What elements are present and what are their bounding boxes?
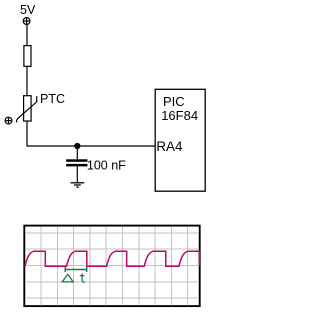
capacitor C1 plate 2: [66, 164, 87, 167]
wire: [76, 166, 78, 182]
wire: [27, 121, 155, 146]
thermistor PTC body: [24, 96, 32, 121]
wire: [26, 25, 28, 46]
svg-text:RA4: RA4: [156, 139, 183, 154]
power terminal 5V: [23, 18, 30, 25]
node junction: [74, 143, 80, 149]
delta-t measurement bracket: [65, 267, 87, 272]
oscilloscope grid: [25, 227, 199, 306]
ground: [71, 183, 85, 187]
svg-text:16F84: 16F84: [161, 108, 198, 123]
svg-text:100 nF: 100 nF: [87, 159, 126, 173]
delta-t label t: [80, 273, 85, 282]
temperature terminal (circle plus): [5, 117, 12, 124]
svg-text:5V: 5V: [20, 3, 36, 17]
waveform trace RA4: [25, 251, 199, 266]
wire: [76, 146, 78, 159]
resistor R1: [24, 46, 31, 67]
thermistor diagonal mark: [17, 96, 37, 122]
IC U1 PIC 16F84 box: [155, 89, 205, 191]
wire: [26, 66, 28, 95]
svg-text:PIC: PIC: [163, 94, 185, 109]
delta-t label triangle: [62, 274, 73, 282]
svg-text:PTC: PTC: [40, 92, 65, 106]
oscilloscope plot border: [24, 226, 199, 307]
capacitor C1 plate 1: [66, 159, 87, 162]
